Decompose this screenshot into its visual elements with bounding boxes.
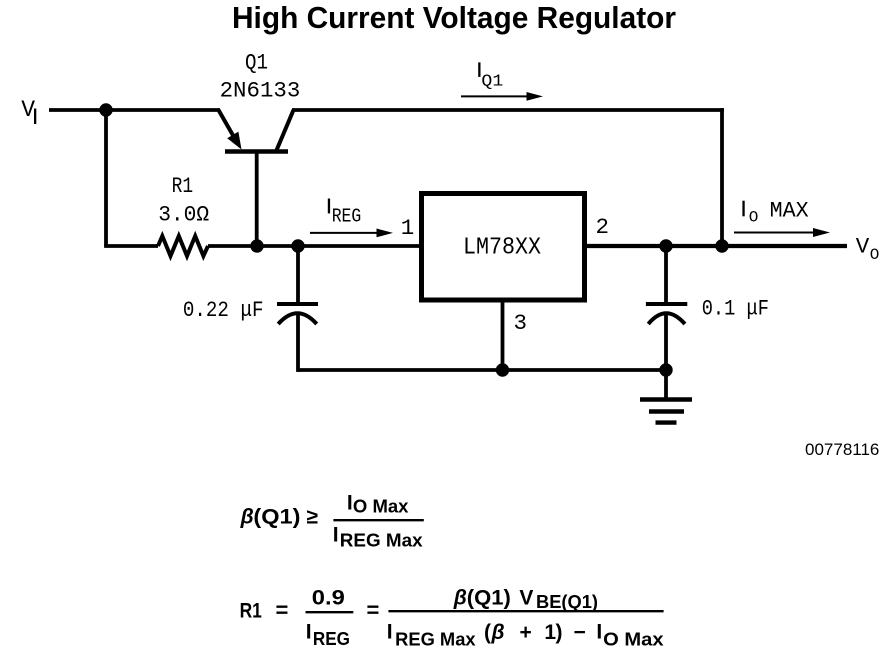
svg-text:0.22 μF: 0.22 μF [183,297,264,323]
wire base node to C1 node [257,244,298,248]
wire collector drop right [720,108,724,246]
svg-text:O Max: O Max [603,628,664,649]
svg-text:I: I [347,492,353,515]
label current IREG [328,199,330,214]
svg-text:≥: ≥ [307,506,319,529]
svg-text:V: V [519,587,533,610]
svg-text:V: V [856,233,870,259]
svg-text:=: = [276,598,289,623]
svg-text:−: − [574,621,586,644]
svg-text:0.1 μF: 0.1 μF [702,296,769,322]
arrow IO MAX direction [734,228,830,237]
wire pin 3 lead [501,300,505,370]
svg-text:00778116: 00778116 [805,440,879,459]
svg-text:O: O [749,209,759,227]
node C1 junction dot [291,239,304,252]
svg-text:1: 1 [401,215,415,241]
label current IQ1 [478,62,480,77]
svg-text:R1: R1 [172,173,194,199]
wire C1 node to pin 1 [298,244,419,248]
node pin 3 junction dot [496,363,509,376]
svg-text:REG: REG [332,206,362,228]
svg-text:LM78XX: LM78XX [463,235,541,262]
wire R1 to base node [208,244,257,248]
wire bottom rail [298,368,666,372]
svg-text:0.9: 0.9 [312,586,345,609]
node C2 junction dot [659,239,672,252]
wire top rail right segment [292,108,724,112]
svg-text:O: O [870,246,880,264]
svg-text:2: 2 [596,214,610,240]
ground [640,370,692,423]
svg-text:I: I [387,621,393,644]
label current IO MAX [742,201,744,217]
svg-text:I: I [306,620,312,643]
svg-text:I: I [333,524,339,547]
svg-text:I: I [596,621,602,644]
svg-text:+: + [520,621,532,644]
wire left to resistor R1 [104,244,158,248]
node ground junction dot [659,363,672,376]
svg-text:REG: REG [313,628,350,649]
formula R1 value [240,586,665,649]
svg-text:REG Max: REG Max [340,530,424,551]
svg-text:β: β [491,621,505,644]
capacitor C1 0.22uF [277,246,318,372]
svg-text:MAX: MAX [770,197,809,223]
svg-text:(Q1): (Q1) [467,587,511,610]
svg-text:): ) [556,621,563,644]
wire pin 2 output [587,244,847,248]
svg-text:V: V [21,97,35,123]
svg-text:Q1: Q1 [245,49,268,75]
transistor Q1 2N6133 [219,110,294,152]
svg-text:(Q1): (Q1) [253,506,300,529]
formula beta(Q1) minimum gain [240,492,424,551]
resistor R1 [158,236,208,256]
node output junction dot [715,239,728,252]
svg-text:BE(Q1): BE(Q1) [536,591,598,612]
svg-text:High Current Voltage Regulator: High Current Voltage Regulator [232,0,676,35]
svg-text:2N6133: 2N6133 [220,78,301,104]
IC U1 LM78XX box [422,194,585,301]
capacitor C2 0.1uF [646,246,687,370]
svg-text:Q1: Q1 [481,73,503,92]
arrow IQ1 direction [461,92,543,101]
node VI junction dot [99,103,112,116]
wire Q1 base lead [255,152,259,247]
wire top rail left segment [106,108,220,112]
node base junction dot [250,239,263,252]
svg-text:O Max: O Max [353,496,409,517]
svg-text:3.0Ω: 3.0Ω [158,201,209,227]
svg-text:R1: R1 [240,600,263,623]
svg-text:3: 3 [514,310,528,336]
svg-text:REG Max: REG Max [395,628,476,649]
svg-text:=: = [367,598,380,623]
svg-text:β: β [240,506,254,529]
arrow IREG direction [310,229,393,238]
svg-text:(: ( [484,621,491,644]
svg-text:β: β [453,587,467,610]
label VI subscript I [34,109,36,125]
wire VI lead [49,108,106,112]
wire VI drop left [104,110,108,246]
